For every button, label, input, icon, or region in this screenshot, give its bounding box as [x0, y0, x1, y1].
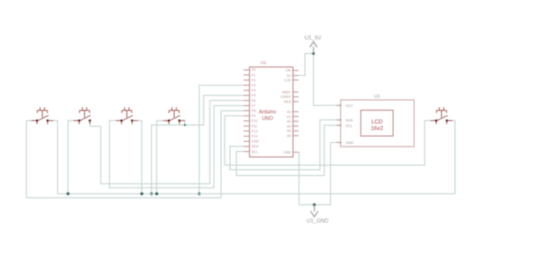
svg-text:IOREF: IOREF	[281, 95, 291, 99]
button S3 contacts	[120, 119, 122, 121]
svg-text:P12: P12	[252, 129, 258, 133]
Arduino left pin labels	[252, 68, 260, 154]
node: bus junction x=156.7	[155, 192, 158, 195]
svg-text:U1_GND: U1_GND	[307, 219, 329, 225]
push button S5	[431, 107, 453, 124]
svg-text:LCD: LCD	[371, 120, 382, 126]
node: GND junction	[313, 203, 316, 206]
svg-text:UNO: UNO	[262, 116, 273, 122]
button S2 contacts	[78, 119, 80, 121]
button S4 contacts	[168, 119, 170, 121]
svg-text:A3: A3	[287, 124, 291, 128]
wire: SDA Arduino to LCD	[230, 120, 342, 170]
svg-text:SDA: SDA	[346, 118, 354, 122]
node: bus junction x=199	[198, 192, 201, 195]
svg-text:P1: P1	[252, 73, 256, 77]
wire: SCL Arduino to LCD	[236, 125, 341, 175]
node: 5V junction	[312, 52, 315, 55]
IC U1 Arduino UNO	[250, 60, 294, 157]
Arduino right pin stubs	[293, 70, 299, 152]
wire: GND net Arduino to LCD	[299, 143, 342, 205]
svg-text:AREF: AREF	[282, 90, 291, 94]
node: junction at S4 drop	[184, 124, 186, 126]
svg-text:P7: P7	[252, 104, 256, 108]
wire: S2 left to bus	[68, 121, 74, 194]
push button S2	[74, 107, 91, 124]
wire: Arduino pin to S4 right / bus tap	[152, 95, 244, 193]
push button S3	[116, 107, 138, 124]
svg-text:P6: P6	[252, 99, 256, 103]
svg-text:A1: A1	[287, 115, 291, 119]
LCD pin labels	[346, 104, 354, 145]
svg-text:3.3V: 3.3V	[284, 78, 292, 82]
wire: S4 right pin drop	[184, 121, 186, 125]
wire: Arduino pin to bus via long vertical	[199, 85, 243, 194]
svg-text:P10: P10	[252, 119, 258, 123]
svg-text:SCL: SCL	[346, 124, 353, 128]
ground flag U1_GND	[307, 205, 329, 225]
wire: S5 right to bus	[452, 121, 455, 194]
wire: S3 right to bus	[138, 121, 142, 194]
svg-text:P8: P8	[252, 109, 256, 113]
svg-text:P13: P13	[252, 135, 258, 139]
LCD module U2	[341, 93, 415, 146]
svg-text:Arduino: Arduino	[259, 110, 276, 116]
svg-text:VCC: VCC	[346, 104, 354, 108]
svg-text:P9: P9	[252, 114, 256, 118]
svg-text:VIN: VIN	[285, 69, 291, 73]
svg-text:P4: P4	[252, 89, 256, 93]
button S1 contacts	[36, 119, 38, 121]
node: bus junction x=151.5	[150, 192, 153, 195]
svg-text:5V: 5V	[287, 74, 292, 78]
wire: Arduino pin to S5 left	[225, 116, 431, 165]
svg-text:P11: P11	[252, 124, 258, 128]
power flag U1_5V	[304, 36, 321, 54]
button S5 contacts	[435, 119, 437, 121]
wire: S1 right to bus	[53, 121, 57, 194]
svg-text:SCL: SCL	[252, 150, 259, 154]
wire: Arduino pin to S2 right	[90, 101, 244, 184]
node: bus junction x=141.8	[140, 192, 143, 195]
push button S1	[31, 107, 53, 124]
svg-text:A2: A2	[287, 120, 291, 124]
wire: S4 left to bus	[157, 121, 163, 194]
svg-text:GND: GND	[346, 141, 354, 145]
Arduino right pin labels	[281, 69, 292, 155]
svg-text:U1_5V: U1_5V	[304, 36, 321, 42]
svg-text:U1: U1	[261, 60, 267, 65]
svg-text:A5: A5	[287, 134, 291, 138]
svg-text:P3: P3	[252, 84, 256, 88]
svg-text:U2: U2	[374, 93, 380, 98]
svg-text:GND: GND	[252, 140, 260, 144]
svg-text:P0: P0	[252, 68, 256, 72]
wire: 5V branch to Arduino 5V pin	[299, 54, 314, 76]
svg-text:GND: GND	[283, 151, 291, 155]
svg-text:P2: P2	[252, 78, 256, 82]
wire: Arduino pin to S3 left	[109, 106, 243, 188]
push button S4	[163, 107, 185, 124]
wire: common bus	[58, 193, 455, 195]
LCD pin stubs	[337, 105, 342, 142]
svg-text:A4: A4	[287, 129, 291, 133]
wire: Arduino pin to S1 left	[26, 111, 243, 198]
svg-text:16x2: 16x2	[371, 126, 383, 132]
svg-text:RES: RES	[284, 100, 292, 104]
svg-text:P5: P5	[252, 94, 256, 98]
Arduino left pin stubs	[244, 70, 250, 152]
svg-text:SDA: SDA	[252, 145, 260, 149]
node: bus junction x=68	[67, 192, 70, 195]
svg-text:A0: A0	[287, 110, 291, 114]
wire: 5V from power flag down to LCD VCC	[314, 46, 342, 105]
